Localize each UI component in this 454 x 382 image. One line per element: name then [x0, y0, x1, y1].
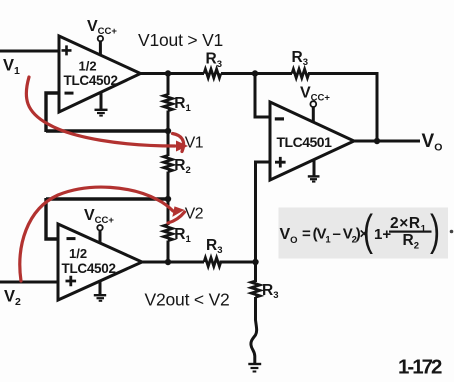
- wire node to U3 minus input: [255, 74, 270, 118]
- svg-text:TLC4502: TLC4502: [64, 73, 118, 88]
- node V2 stub wire: [46, 197, 168, 200]
- wire feedback loop U2: [46, 198, 58, 239]
- wire V1 input to U1 +: [0, 50, 59, 53]
- formula fraction bar: [389, 231, 432, 233]
- svg-text:V1out > V1: V1out > V1: [138, 30, 223, 50]
- svg-text:V2: V2: [185, 206, 203, 223]
- node dot: U1 out: [165, 70, 171, 76]
- ground U1: [95, 92, 108, 116]
- Vcc+ pin U3: [300, 85, 330, 123]
- ground (bottom): [248, 364, 261, 372]
- wire U2 output lower rail: [142, 261, 204, 264]
- svg-text:TLC4502: TLC4502: [62, 261, 116, 276]
- wire V2 to lower R1: [167, 199, 170, 225]
- node dot: lower rail left: [165, 259, 171, 265]
- wire U1 output top rail: [141, 72, 205, 75]
- resistor R3 (top-right horizontal, feedback): [292, 69, 309, 78]
- op-amp U3 TLC4501: [270, 102, 354, 180]
- wire between R3s: [221, 72, 292, 75]
- resistor R1 (top): [164, 95, 173, 111]
- resistor R3 (lower horizontal): [204, 258, 221, 267]
- annotation red curve to V2: [20, 187, 185, 281]
- wire feedback loop U1: [46, 93, 59, 132]
- resistor R3 (vertical): [251, 281, 260, 297]
- wire R1 to node V1: [167, 111, 170, 132]
- wire U3 output: [354, 140, 420, 143]
- ground U3: [308, 160, 320, 182]
- Vcc+ pin U1: [87, 18, 117, 56]
- wire lower R1 to lower rail: [167, 241, 170, 263]
- wire V2 input to U2 +: [0, 281, 58, 284]
- wire R2 to node V2: [167, 172, 170, 200]
- wire R3 to corner and down to output node: [308, 74, 377, 142]
- wire U3 plus input down through junction: [256, 162, 271, 282]
- op-amp U2 1/2 TLC4502 (bottom): [58, 224, 142, 300]
- resistor R1 (lower): [164, 225, 173, 241]
- node dot: lower rail right: [252, 259, 258, 265]
- svg-text:1/2: 1/2: [69, 246, 87, 261]
- svg-text:(: (: [363, 206, 373, 255]
- resistor R3 (top-left horizontal): [204, 69, 221, 78]
- svg-text:TLC4501: TLC4501: [277, 134, 333, 150]
- formula trailing period: [450, 230, 454, 234]
- annotation red curve to V1: [26, 77, 183, 152]
- op-amp U1 1/2 TLC4502 (top): [59, 36, 141, 112]
- node dot: U3 minus branch: [252, 70, 258, 76]
- formula box: [279, 208, 449, 259]
- wire R3 squiggle to ground: [251, 297, 257, 363]
- wire lower R3 to junction: [220, 261, 256, 264]
- node dot: V2: [165, 196, 171, 202]
- svg-text:1-172: 1-172: [398, 355, 442, 378]
- node dot: V1: [165, 128, 171, 134]
- Vcc+ pin U2: [84, 207, 114, 243]
- svg-text:V2out < V2: V2out < V2: [145, 290, 230, 310]
- svg-text:1+: 1+: [374, 226, 391, 243]
- svg-text:= (V1 – V2)×: = (V1 – V2)×: [302, 226, 369, 246]
- wire V1 to R2: [167, 131, 170, 156]
- resistor R2: [164, 156, 173, 172]
- svg-text:V1: V1: [185, 135, 204, 152]
- svg-text:1/2: 1/2: [79, 59, 97, 74]
- node dot: output: [374, 138, 380, 144]
- ground U2: [94, 281, 106, 301]
- wire divider chain top: [167, 74, 170, 96]
- node V1 stub wire: [46, 129, 168, 132]
